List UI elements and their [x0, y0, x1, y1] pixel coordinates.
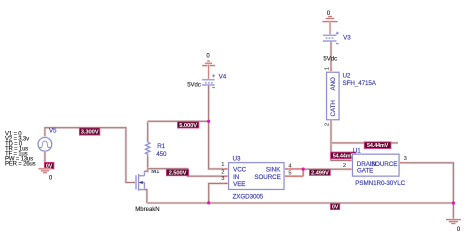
svg-text:3: 3	[221, 176, 224, 182]
svg-text:V5: V5	[49, 127, 57, 134]
svg-text:2: 2	[221, 170, 224, 176]
svg-text:U1: U1	[353, 148, 361, 155]
svg-text:ZXGD3005: ZXGD3005	[233, 194, 264, 201]
ground 0 bottom right	[446, 220, 461, 224]
svg-text:SINK: SINK	[266, 167, 281, 174]
svg-text:PSMN1R0-30YLC: PSMN1R0-30YLC	[355, 180, 405, 187]
junction U3 output node	[302, 168, 305, 171]
svg-text:54.44mV: 54.44mV	[367, 143, 389, 149]
svg-text:VCC: VCC	[233, 167, 247, 174]
svg-text:3: 3	[404, 156, 407, 162]
wire R1 bottom to M1 drain	[144, 157, 147, 172]
resistor R1	[146, 121, 150, 156]
bias label 54.44mV left	[331, 152, 356, 159]
junction VEE at rail	[207, 201, 210, 204]
svg-text:5.000V: 5.000V	[179, 123, 197, 129]
transistor U1 PSMN1R0-30YLC	[353, 154, 400, 176]
bias label 0V rail	[331, 204, 340, 211]
wire driver output to U1 gate	[303, 168, 352, 171]
svg-text:SOURCE: SOURCE	[254, 174, 280, 181]
svg-text:450: 450	[156, 151, 167, 158]
svg-text:VEE: VEE	[233, 181, 245, 188]
svg-text:V4: V4	[219, 74, 227, 81]
wire V4 junction to U3 pin1	[209, 121, 224, 169]
bias label 54.44mV top	[364, 142, 391, 149]
dc source V3	[323, 22, 339, 73]
svg-text:1: 1	[221, 162, 224, 168]
wire U2 cathode to U1 drain	[331, 120, 353, 161]
wire 5.000V net rail	[148, 120, 209, 123]
svg-text:MbreakN: MbreakN	[135, 207, 159, 213]
svg-text:U2: U2	[343, 73, 351, 80]
bias label 0V at V5 ground	[44, 162, 54, 169]
svg-text:3.300V: 3.300V	[81, 130, 99, 136]
pin stubs U3	[224, 169, 289, 184]
svg-text:5Vdc: 5Vdc	[187, 82, 201, 88]
bias label 3.300V node Vpulse	[79, 128, 99, 136]
svg-text:2: 2	[324, 123, 330, 126]
ground 0 below V5	[38, 169, 51, 173]
bias label 5.000V	[178, 122, 199, 129]
svg-text:1: 1	[324, 67, 330, 70]
svg-text:PER = 26us: PER = 26us	[5, 162, 36, 168]
svg-text:CATH: CATH	[330, 100, 337, 117]
svg-text:GATE: GATE	[357, 167, 373, 174]
svg-text:SOURCE: SOURCE	[371, 161, 397, 168]
LED U2 SFH_4715A	[327, 72, 339, 119]
svg-text:R1: R1	[157, 143, 165, 150]
ground 0 above V4 (mirrored)	[202, 61, 215, 66]
transistor M1	[136, 171, 144, 190]
pulse source V5	[38, 138, 52, 169]
svg-text:5Vdc: 5Vdc	[323, 57, 337, 63]
junction right at rail	[452, 201, 455, 204]
svg-text:V3: V3	[343, 34, 351, 41]
wire 0V rail	[147, 202, 454, 205]
svg-text:0V: 0V	[332, 205, 339, 211]
svg-text:ANO: ANO	[330, 77, 337, 91]
svg-text:2.500V: 2.500V	[169, 171, 187, 177]
svg-text:2: 2	[343, 163, 346, 169]
wire M1 source to rail	[144, 190, 147, 203]
pin stubs U1	[348, 160, 404, 169]
bias label 2.500V	[166, 169, 188, 176]
wire V5 top to M1 gate	[45, 128, 136, 183]
wire U1 source to ground	[404, 163, 454, 219]
junction V4 / R1 node	[207, 120, 210, 123]
svg-text:IN: IN	[233, 174, 240, 181]
svg-text:SFH_4715A: SFH_4715A	[343, 80, 377, 87]
wire drain net horizontal stub	[331, 142, 398, 145]
svg-text:2.499V: 2.499V	[311, 171, 329, 177]
svg-text:54.44mV: 54.44mV	[333, 153, 355, 159]
bias label 2.499V	[310, 169, 331, 176]
wire 2.500V net R1 node to U3 pin2	[148, 169, 224, 177]
wire U3 pin3 VEE to 0 rail	[209, 183, 224, 203]
svg-text:U3: U3	[233, 155, 241, 162]
ground 0 above V3 (mirrored)	[322, 17, 337, 22]
pin stubs U2	[330, 68, 332, 125]
V5 parameters text	[5, 131, 36, 167]
dc source V4	[202, 65, 215, 122]
driver U3 ZXGD3005	[229, 163, 284, 190]
wire U3 sink source tied	[289, 169, 303, 176]
